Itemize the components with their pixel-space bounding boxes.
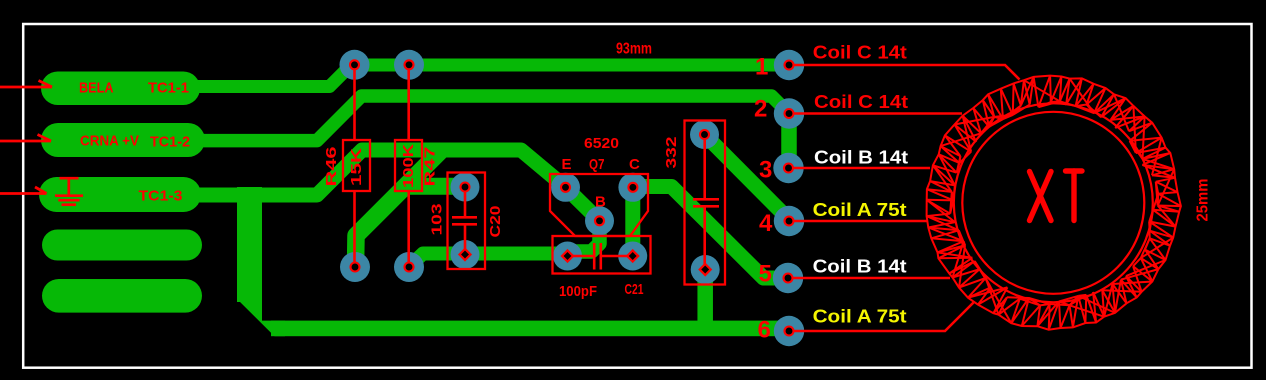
svg-text:3: 3	[759, 157, 772, 184]
connector stub TC1-2	[0, 135, 51, 142]
svg-text:CRNA +V: CRNA +V	[80, 133, 139, 150]
wire net1 TC1-1 to pad1 top trace	[196, 65, 789, 87]
wire Q7 base to C21 left pad	[567, 221, 600, 252]
svg-text:R47: R47	[422, 147, 439, 187]
pad C20 bottom	[451, 240, 480, 269]
wire net2 TC1-2 to pad2	[200, 96, 789, 141]
svg-text:4: 4	[759, 210, 773, 237]
capacitor C20 body	[448, 173, 486, 270]
hole Q7 emitter	[561, 183, 570, 192]
wire 332 bottom pad to bottom trace	[697, 270, 713, 329]
svg-text:TC1-2: TC1-2	[150, 134, 190, 151]
ratsnest line pad3 to XT	[789, 167, 930, 170]
pad 1	[774, 50, 804, 80]
pad R46 bottom	[340, 252, 370, 282]
svg-text:332: 332	[663, 137, 680, 169]
capacitor C21 symbol	[568, 243, 633, 270]
ratsnest line pad4 to XT	[789, 220, 927, 223]
hole pad B	[405, 60, 414, 69]
pad TC1-2	[41, 123, 205, 157]
svg-text:B: B	[595, 194, 606, 211]
connector stub TC1-3	[0, 187, 47, 194]
wire TC1-3 vertical branch	[237, 187, 262, 302]
wire 332 top pad to pad4	[705, 135, 790, 220]
svg-text:15K: 15K	[348, 148, 365, 186]
hole R46 bottom	[351, 263, 360, 272]
capacitor 332 symbol	[693, 135, 719, 270]
ground symbol	[55, 178, 83, 205]
svg-text:Coil C 14t: Coil C 14t	[814, 92, 908, 112]
hole 332 bottom diamond	[700, 264, 711, 275]
svg-text:2: 2	[754, 96, 767, 123]
pad TC1-3	[39, 177, 201, 212]
capacitor 332 body	[685, 121, 726, 285]
svg-text:Q7: Q7	[589, 156, 605, 173]
svg-text:100K: 100K	[400, 144, 417, 188]
pad 332 top	[690, 120, 719, 149]
pad Q7 collector	[618, 173, 647, 202]
pad C21 right	[618, 242, 647, 271]
svg-text:Coil B 14t: Coil B 14t	[814, 148, 908, 168]
svg-text:100pF: 100pF	[559, 283, 597, 300]
hole C21 left diamond	[562, 250, 573, 261]
svg-text:103: 103	[429, 204, 446, 236]
wire R47 bottom pad to C21 left pad	[409, 254, 570, 268]
pad TC1-1	[41, 72, 200, 106]
hole C20 top	[461, 183, 470, 192]
capacitor C20 symbol	[452, 187, 477, 255]
wire C21 right pad to Q7 collector	[625, 187, 640, 256]
svg-text:6: 6	[758, 317, 771, 344]
pad spare 5	[42, 279, 202, 313]
toroid inner rim circle outer	[954, 103, 1153, 302]
svg-text:R46: R46	[323, 147, 340, 187]
hole pad 1	[785, 61, 794, 70]
pad 3	[773, 153, 803, 183]
wire Q7 collector to pad5	[633, 187, 789, 279]
svg-text:6520: 6520	[584, 135, 619, 152]
hole pad 4	[785, 217, 794, 226]
toroid inner rim circle inner	[962, 112, 1144, 294]
svg-text:TC1-1: TC1-1	[148, 80, 189, 97]
pad Q7 base	[585, 206, 614, 235]
hole pad 2	[785, 109, 794, 118]
label XT	[1030, 171, 1083, 221]
hole R47 bottom	[405, 263, 414, 272]
svg-text:E: E	[562, 156, 572, 173]
pad C20 top	[451, 173, 480, 202]
wire net3 TC1-3 to Q7 base	[198, 150, 600, 221]
pad 2	[774, 98, 804, 128]
hole C20 bottom diamond	[459, 249, 470, 260]
resistor R46 leads	[353, 65, 356, 267]
wire pad2 to pad3 vertical	[781, 110, 797, 168]
connector stub TC1-1	[0, 81, 52, 88]
wire elbow bevel	[237, 299, 285, 336]
svg-text:TC1-3: TC1-3	[139, 188, 183, 205]
svg-text:C21: C21	[625, 281, 644, 298]
capacitor C21 body	[553, 236, 651, 274]
pad 332 bottom	[691, 255, 720, 284]
svg-text:25mm: 25mm	[1195, 179, 1212, 222]
resistor R47 leads	[407, 65, 410, 267]
transistor Q7 outline	[550, 174, 648, 236]
svg-text:C20: C20	[487, 206, 504, 238]
pad 4	[774, 206, 804, 236]
wire branch to R46 bottom pad	[356, 151, 442, 268]
ratsnest line pad1 to XT	[789, 65, 1020, 80]
pad C21 left	[553, 242, 582, 271]
ratsnest line pad5 to XT	[789, 277, 950, 280]
hole Q7 base	[595, 216, 604, 225]
resistor R46 body	[343, 140, 370, 191]
svg-text:93mm: 93mm	[616, 41, 652, 58]
pad Q7 emitter	[551, 173, 580, 202]
wire bottom trace to pad6	[271, 321, 789, 337]
hole pad 6	[785, 327, 794, 336]
svg-text:1: 1	[755, 54, 768, 81]
svg-text:Coil A 75t: Coil A 75t	[813, 200, 907, 220]
hole pad A	[350, 60, 359, 69]
resistor R47 body	[395, 140, 422, 191]
svg-text:Coil C 14t: Coil C 14t	[813, 43, 907, 63]
pad R47 top (via B)	[394, 50, 424, 80]
pad R46 top (via A)	[340, 50, 370, 80]
hole C21 right diamond	[627, 250, 638, 261]
wire stub to C20 top pad	[403, 178, 465, 195]
transformer XT toroid winding mesh	[927, 76, 1181, 330]
pad 6	[774, 316, 804, 346]
svg-text:Coil B 14t: Coil B 14t	[813, 257, 907, 277]
svg-text:5: 5	[759, 261, 772, 288]
hole Q7 collector	[628, 183, 637, 192]
svg-text:BELA: BELA	[79, 80, 114, 97]
pad 5	[773, 263, 803, 293]
hole 332 top	[700, 130, 709, 139]
hole pad 3	[784, 164, 793, 173]
svg-text:Coil A 75t: Coil A 75t	[813, 307, 907, 327]
pad spare 4	[42, 230, 202, 261]
pad R47 bottom	[394, 252, 424, 282]
ratsnest line pad2 to XT	[789, 112, 962, 115]
svg-text:C: C	[629, 156, 640, 173]
ratsnest line pad6 to XT	[789, 303, 974, 332]
hole pad 5	[784, 274, 793, 283]
